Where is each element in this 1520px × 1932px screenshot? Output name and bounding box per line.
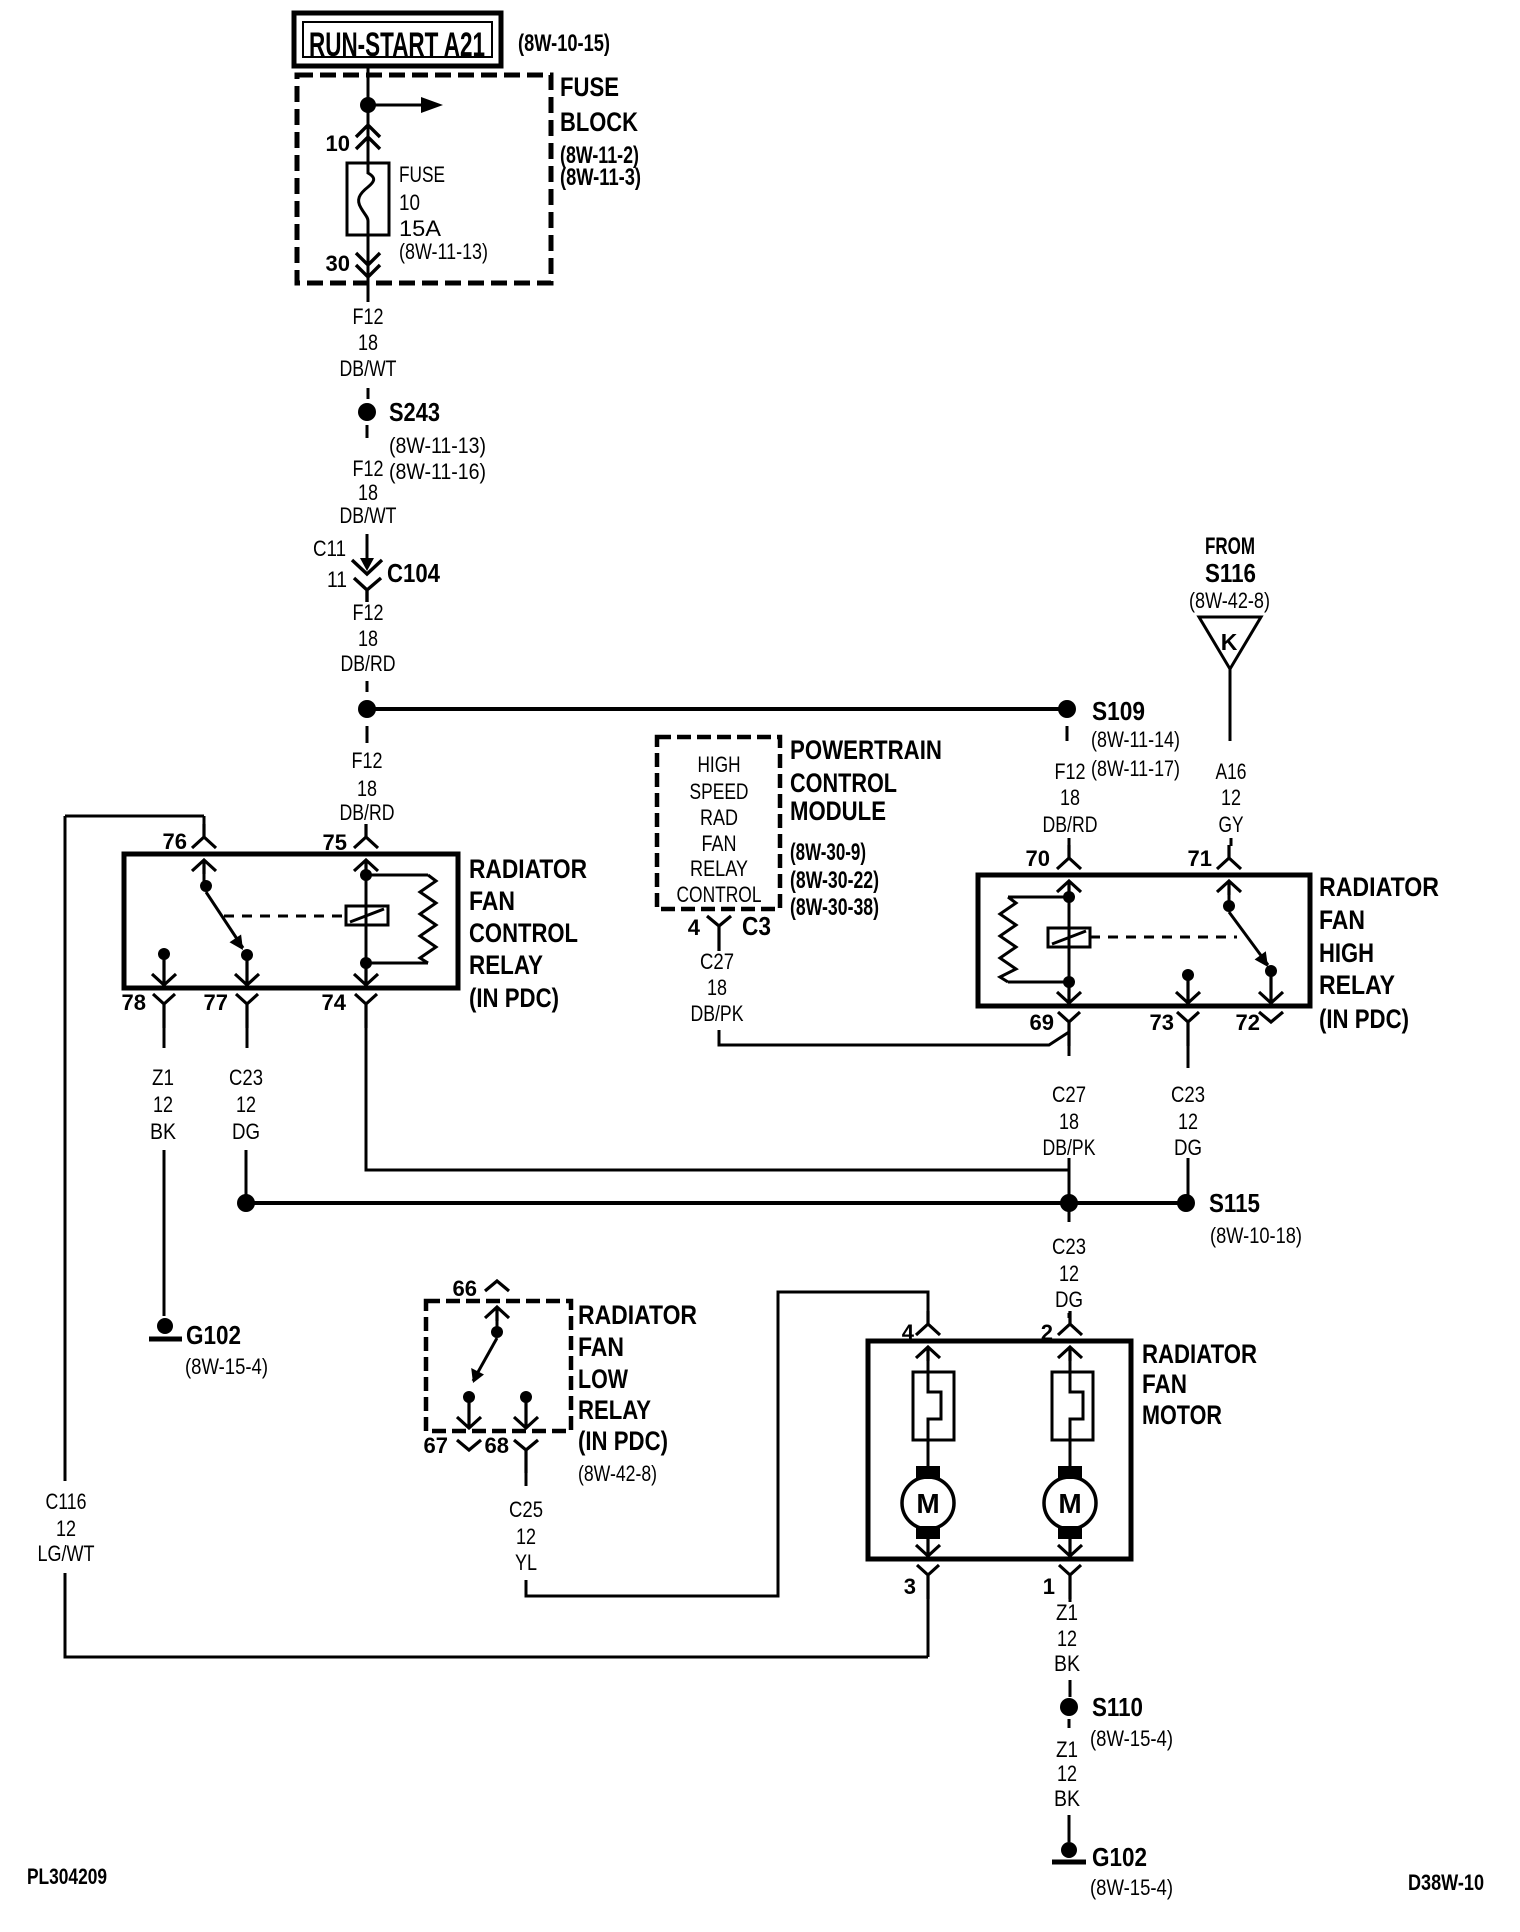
svg-text:(8W-30-38): (8W-30-38) [790,894,879,921]
svg-text:(8W-11-14): (8W-11-14) [1091,727,1180,752]
svg-text:LOW: LOW [578,1364,628,1394]
svg-text:12: 12 [516,1524,536,1549]
svg-text:78: 78 [122,990,146,1015]
svg-text:1: 1 [1043,1574,1055,1599]
svg-text:C11: C11 [313,536,346,561]
svg-text:C116: C116 [46,1489,87,1514]
svg-text:(8W-10-15): (8W-10-15) [518,30,610,57]
svg-text:LG/WT: LG/WT [38,1541,95,1566]
svg-text:A16: A16 [1216,759,1247,784]
svg-text:FROM: FROM [1205,533,1255,560]
svg-text:SPEED: SPEED [690,779,749,804]
svg-text:CONTROL: CONTROL [469,918,578,948]
svg-text:DB/RD: DB/RD [1043,812,1098,837]
svg-text:FAN: FAN [1319,905,1365,935]
svg-text:RAD: RAD [700,805,738,830]
svg-text:18: 18 [358,330,378,355]
svg-text:72: 72 [1236,1010,1260,1035]
svg-text:(8W-30-22): (8W-30-22) [790,867,879,894]
svg-text:C27: C27 [700,949,734,974]
svg-text:(8W-10-18): (8W-10-18) [1210,1223,1302,1248]
svg-text:(IN PDC): (IN PDC) [469,983,559,1013]
svg-text:C23: C23 [1171,1082,1205,1107]
svg-text:C27: C27 [1052,1082,1086,1107]
svg-text:69: 69 [1030,1010,1054,1035]
svg-text:12: 12 [56,1516,76,1541]
svg-text:POWERTRAIN: POWERTRAIN [790,735,942,765]
svg-text:(8W-30-9): (8W-30-9) [790,839,866,866]
svg-text:76: 76 [163,829,187,854]
svg-text:18: 18 [358,626,378,651]
svg-text:G102: G102 [186,1320,241,1350]
svg-text:18: 18 [1060,785,1080,810]
svg-text:12: 12 [1059,1261,1079,1286]
svg-text:M: M [1058,1488,1081,1519]
svg-text:2: 2 [1041,1320,1053,1345]
svg-text:BK: BK [150,1119,176,1144]
svg-text:77: 77 [204,990,228,1015]
svg-text:FAN: FAN [578,1332,624,1362]
svg-text:15A: 15A [399,216,441,241]
svg-text:75: 75 [323,830,347,855]
svg-text:30: 30 [326,251,350,276]
svg-text:(8W-42-8): (8W-42-8) [1189,588,1270,613]
svg-text:12: 12 [1057,1626,1077,1651]
svg-text:C3: C3 [742,911,771,941]
svg-text:DB/WT: DB/WT [340,356,397,381]
svg-text:12: 12 [236,1092,256,1117]
svg-text:10: 10 [326,131,350,156]
svg-text:RADIATOR: RADIATOR [1319,872,1439,902]
svg-text:RELAY: RELAY [469,950,543,980]
svg-text:F12: F12 [353,304,384,329]
svg-text:Z1: Z1 [1056,1737,1078,1762]
svg-text:S116: S116 [1205,558,1256,588]
svg-text:C25: C25 [509,1497,543,1522]
svg-text:DG: DG [1055,1287,1083,1312]
svg-text:S110: S110 [1092,1692,1143,1722]
svg-text:G102: G102 [1092,1842,1147,1872]
svg-text:66: 66 [453,1276,477,1301]
svg-text:Z1: Z1 [152,1065,174,1090]
svg-text:HIGH: HIGH [1319,938,1374,968]
svg-text:F12: F12 [352,748,383,773]
svg-text:(8W-15-4): (8W-15-4) [1090,1875,1173,1900]
svg-text:BK: BK [1054,1651,1080,1676]
svg-text:RELAY: RELAY [1319,970,1395,1000]
svg-text:(8W-11-3): (8W-11-3) [560,164,641,191]
svg-text:68: 68 [485,1433,509,1458]
svg-text:RADIATOR: RADIATOR [1142,1339,1257,1369]
svg-text:12: 12 [1057,1761,1077,1786]
svg-text:DG: DG [1174,1135,1202,1160]
svg-text:(IN PDC): (IN PDC) [1319,1004,1409,1034]
svg-text:F12: F12 [353,456,384,481]
svg-text:PL304209: PL304209 [27,1864,107,1889]
svg-text:(8W-11-13): (8W-11-13) [389,433,486,458]
svg-text:BLOCK: BLOCK [560,107,638,137]
svg-text:Z1: Z1 [1056,1600,1078,1625]
svg-text:3: 3 [904,1574,916,1599]
svg-text:12: 12 [153,1092,173,1117]
svg-text:F12: F12 [1055,759,1086,784]
svg-text:DB/RD: DB/RD [341,651,396,676]
svg-text:70: 70 [1026,846,1050,871]
svg-text:M: M [916,1488,939,1519]
svg-text:GY: GY [1219,812,1244,837]
svg-text:(8W-11-17): (8W-11-17) [1091,756,1180,781]
svg-text:MOTOR: MOTOR [1142,1400,1222,1430]
svg-text:DB/PK: DB/PK [1043,1135,1096,1160]
svg-text:MODULE: MODULE [790,796,886,826]
svg-text:CONTROL: CONTROL [790,768,897,798]
svg-text:73: 73 [1150,1010,1174,1035]
svg-text:(IN PDC): (IN PDC) [578,1426,668,1456]
svg-text:18: 18 [1059,1109,1079,1134]
svg-text:FUSE: FUSE [399,162,445,187]
svg-text:FUSE: FUSE [560,72,619,102]
svg-text:S243: S243 [389,397,440,427]
svg-text:4: 4 [902,1320,915,1345]
svg-text:(8W-15-4): (8W-15-4) [1090,1726,1173,1751]
svg-text:74: 74 [322,990,347,1015]
svg-text:67: 67 [424,1433,448,1458]
svg-text:CONTROL: CONTROL [677,882,762,907]
svg-text:DB/WT: DB/WT [340,503,397,528]
svg-text:DG: DG [232,1119,260,1144]
svg-text:YL: YL [515,1550,537,1575]
svg-text:11: 11 [327,567,347,592]
svg-text:DB/RD: DB/RD [340,800,395,825]
svg-text:RADIATOR: RADIATOR [578,1300,697,1330]
svg-text:71: 71 [1188,846,1212,871]
svg-text:RUN-START A21: RUN-START A21 [309,26,485,64]
svg-text:DB/PK: DB/PK [691,1001,744,1026]
svg-text:RELAY: RELAY [690,856,748,881]
svg-text:F12: F12 [353,600,384,625]
svg-text:HIGH: HIGH [698,752,741,777]
svg-text:(8W-11-13): (8W-11-13) [399,239,488,264]
svg-text:C104: C104 [387,558,440,588]
svg-text:BK: BK [1054,1786,1080,1811]
svg-text:S109: S109 [1092,696,1145,726]
svg-text:12: 12 [1221,785,1241,810]
svg-text:FAN: FAN [1142,1369,1187,1399]
svg-text:C23: C23 [1052,1234,1086,1259]
svg-text:4: 4 [688,915,701,940]
svg-text:(8W-11-16): (8W-11-16) [389,459,486,484]
svg-text:K: K [1221,629,1238,655]
svg-text:18: 18 [357,776,377,801]
svg-text:S115: S115 [1209,1188,1260,1218]
svg-text:D38W-10: D38W-10 [1408,1870,1484,1895]
svg-text:(8W-15-4): (8W-15-4) [185,1354,268,1379]
svg-text:(8W-42-8): (8W-42-8) [578,1461,657,1486]
svg-text:18: 18 [707,975,727,1000]
svg-text:10: 10 [399,190,420,215]
svg-text:FAN: FAN [469,886,515,916]
svg-text:C23: C23 [229,1065,263,1090]
svg-text:18: 18 [358,480,378,505]
svg-text:12: 12 [1178,1109,1198,1134]
svg-text:RADIATOR: RADIATOR [469,854,587,884]
svg-text:RELAY: RELAY [578,1395,651,1425]
svg-text:FAN: FAN [702,831,737,856]
